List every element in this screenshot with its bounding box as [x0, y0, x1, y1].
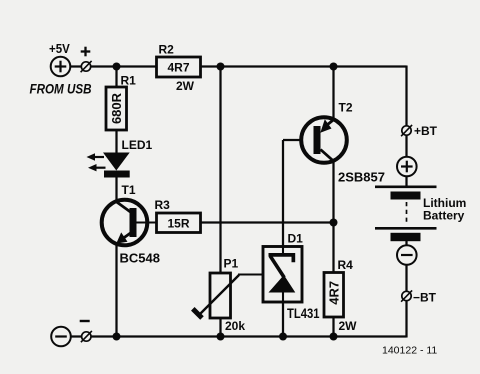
svg-text:15R: 15R: [168, 217, 190, 231]
svg-text:2W: 2W: [176, 79, 195, 93]
junction dot R3/T2 collector/R4: [330, 219, 338, 227]
TL431 D1: [263, 232, 320, 322]
wire T2 base horizontal: [283, 139, 314, 141]
resistor R1: [106, 74, 136, 131]
resistor R2: [157, 57, 201, 77]
svg-text:680R: 680R: [109, 92, 124, 124]
TL431 cathode pin inside box: [282, 246, 284, 254]
svg-text:20k: 20k: [225, 319, 245, 333]
svg-text:P1: P1: [224, 257, 239, 271]
TL431 cathode bar with hook: [269, 253, 296, 262]
svg-text:2SB857: 2SB857: [338, 170, 385, 185]
terminal +BT: [401, 125, 412, 136]
P1 wiper to TL431 ref: [238, 273, 264, 275]
wire right column down to +BT: [405, 66, 407, 127]
LED light arrow 2: [88, 164, 97, 171]
wire +BT to plus circle: [405, 136, 407, 158]
svg-text:4R7: 4R7: [168, 61, 190, 75]
T2 emitter diagonal with arrow into base: [327, 120, 334, 126]
svg-text:LED1: LED1: [122, 138, 153, 152]
battery plus circle: [397, 157, 417, 177]
output terminal -: [81, 331, 92, 342]
wire R1 top: [115, 67, 117, 88]
+5V source circle: [51, 57, 71, 77]
TL431 anode triangle: [269, 275, 296, 293]
svg-text:BC548: BC548: [120, 251, 160, 266]
wire T2 emitter up: [332, 67, 334, 120]
T2 base bar: [314, 126, 321, 154]
T1 base bar: [130, 208, 137, 237]
P1 wiper arrow: [199, 275, 240, 316]
input terminal +: [81, 61, 92, 72]
svg-text:D1: D1: [288, 232, 304, 246]
T1 base wire: [137, 221, 157, 223]
svg-text:R1: R1: [121, 74, 137, 88]
junction dot bottom rail R4: [330, 333, 338, 341]
wire bottom rail: [91, 335, 407, 337]
svg-text:R2: R2: [159, 43, 175, 57]
wire battery to minus circle: [405, 241, 407, 246]
transistor T2 2SB857: [301, 101, 385, 185]
T1 collector diagonal: [116, 202, 131, 213]
wire bottom rail left: [71, 335, 82, 337]
minus sign above output terminal: [80, 320, 90, 322]
minus source circle bottom left: [51, 327, 71, 347]
junction dot bottom rail P1: [217, 333, 225, 341]
lithium battery cell plates: [375, 187, 466, 241]
LED light arrow 1: [87, 153, 96, 160]
wire T1 emitter to bottom rail: [115, 244, 117, 337]
wire R3 to junction: [201, 221, 334, 223]
resistor R3: [157, 213, 201, 233]
svg-text:2W: 2W: [339, 319, 358, 333]
svg-text:+5V: +5V: [49, 41, 70, 56]
TL431 diagonal: [270, 256, 284, 278]
node A junction dot (R2 right): [217, 63, 225, 71]
svg-text:FROM USB: FROM USB: [30, 82, 92, 97]
wire R1 bottom to LED: [115, 130, 117, 153]
junction dot bottom rail TL431: [279, 333, 287, 341]
wire node A down to P1: [219, 67, 221, 274]
junction dot T2 emitter rail: [330, 63, 338, 71]
battery dashed middle: [406, 202, 408, 224]
wire plus circle to battery: [405, 176, 407, 186]
svg-text:R3: R3: [155, 198, 171, 212]
terminal -BT: [401, 290, 412, 301]
svg-text:T1: T1: [122, 183, 136, 197]
wire P1 bottom: [219, 318, 221, 337]
svg-text:+BT: +BT: [414, 124, 438, 138]
T2 collector diagonal: [321, 150, 335, 162]
svg-text:140122 - 11: 140122 - 11: [382, 345, 437, 357]
svg-text:−BT: −BT: [413, 291, 437, 305]
potentiometer P1: [193, 257, 264, 334]
svg-text:R4: R4: [338, 258, 354, 272]
svg-text:Battery: Battery: [423, 209, 465, 223]
wire R2 right to corner: [201, 65, 407, 67]
wire minus circle to -BT: [405, 265, 407, 292]
wire R4 bottom: [332, 317, 334, 337]
svg-text:T2: T2: [339, 101, 353, 115]
TL431 anode pin inside box: [282, 292, 284, 302]
resistor R4: [324, 258, 357, 333]
battery minus circle: [397, 245, 417, 265]
wire TL431 anode to rail: [282, 292, 284, 337]
wire terminal to R2: [91, 65, 157, 67]
wire T2 base to TL431 cathode: [282, 140, 284, 254]
wire LED cathode to T1 collector: [115, 177, 117, 202]
junction dot R1 top: [113, 63, 121, 71]
junction dot bottom rail T1: [113, 333, 121, 341]
wire top rail left: [71, 65, 82, 67]
wire -BT to rail corner: [405, 301, 407, 338]
svg-text:TL431: TL431: [287, 306, 320, 321]
svg-text:4R7: 4R7: [326, 281, 341, 305]
T1 emitter diagonal with arrow: [121, 233, 131, 240]
transistor T1 BC548: [102, 183, 160, 266]
LED1: [87, 138, 153, 178]
wire T2 collector down to R4: [332, 161, 334, 273]
plus sign above input terminal: [81, 47, 91, 57]
